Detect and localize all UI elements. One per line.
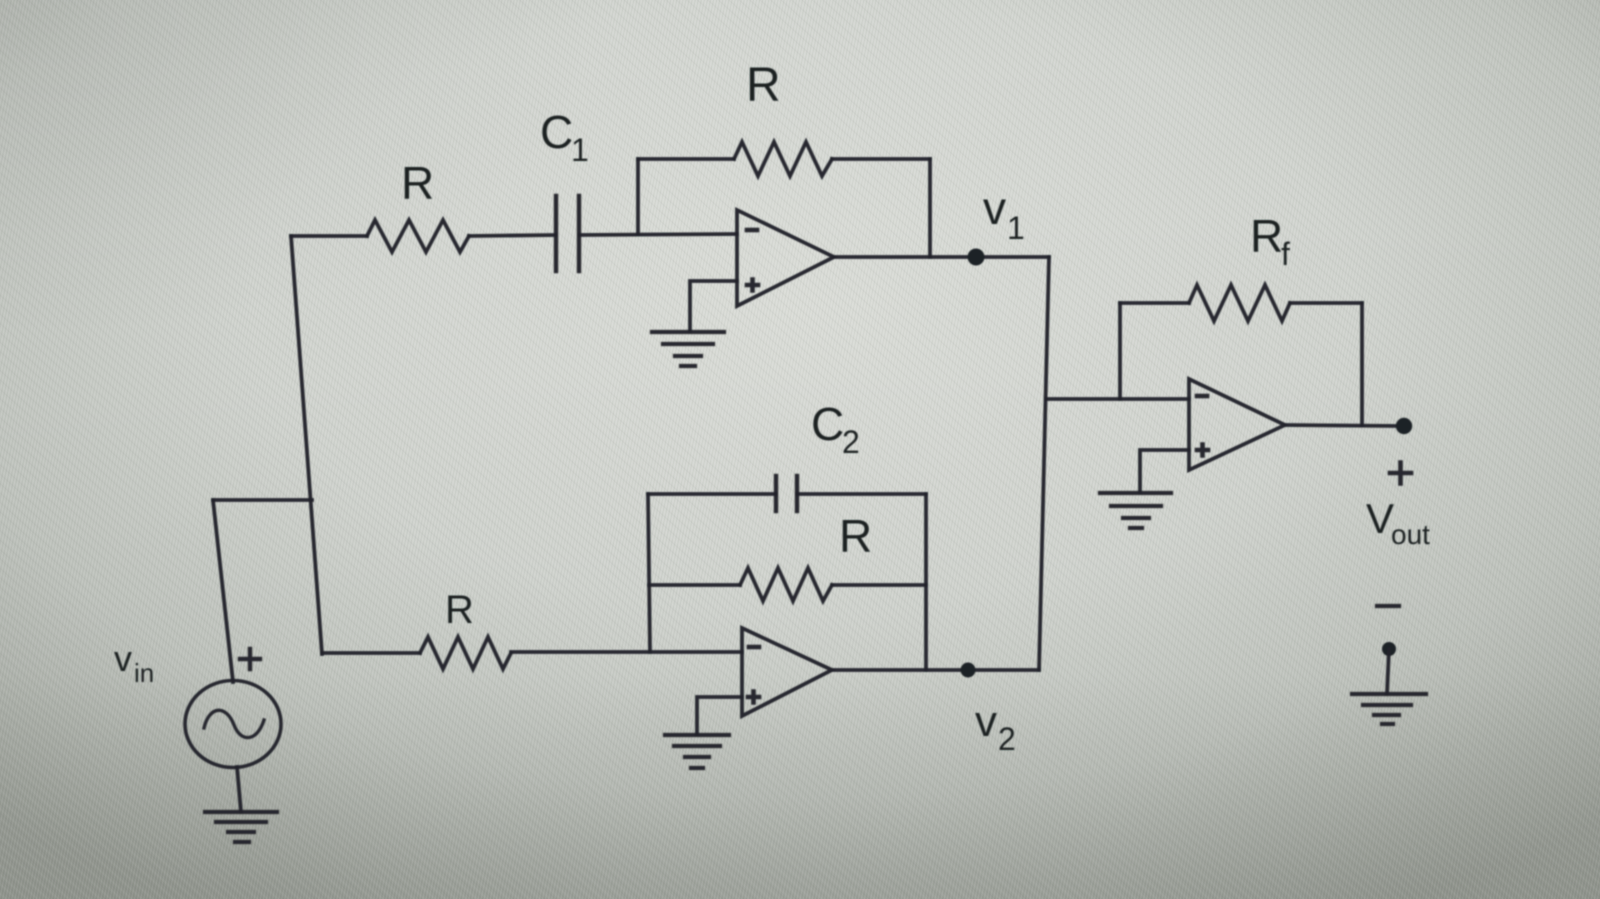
wire: Rf top left <box>1120 301 1189 305</box>
U1 plus pin <box>747 280 758 291</box>
svg-text:R: R <box>746 59 781 112</box>
svg-text:C: C <box>811 398 844 450</box>
wire: U1 feedback left vertical <box>636 159 640 234</box>
svg-text:in: in <box>134 658 154 688</box>
svg-text:v: v <box>114 638 132 679</box>
wire: U1 non-inverting input <box>690 281 737 331</box>
wire: long vertical V1 to V2 <box>1039 257 1049 670</box>
node Vout dot <box>1396 418 1412 434</box>
svg-text:V: V <box>1366 495 1394 542</box>
resistor Rf <box>1189 285 1290 321</box>
wire: U1 feedback top right <box>832 157 930 161</box>
wire: R to C1 <box>469 235 556 236</box>
wire: to output ground <box>1387 649 1389 694</box>
U3 plus pin <box>1197 445 1208 456</box>
wire: U3 output <box>1285 425 1403 426</box>
op-amp U2 <box>742 628 832 716</box>
wire: bottom branch left <box>322 651 420 655</box>
wire: U2 non-inverting input <box>697 697 742 734</box>
wire: source vertical <box>213 500 233 682</box>
node V1 junction dot <box>968 249 985 266</box>
wire: U1 feedback top left <box>638 157 734 161</box>
svg-text:v: v <box>975 697 997 746</box>
svg-text:R: R <box>839 510 872 562</box>
capacitor C1 right plate <box>577 196 581 271</box>
svg-text:out: out <box>1391 519 1430 550</box>
U1 minus pin <box>747 228 757 233</box>
node V2 junction dot <box>961 663 976 678</box>
wire: U1 output to V1 <box>834 255 1049 259</box>
capacitor C2 right plate <box>795 476 799 511</box>
wire: R feedback right <box>832 583 926 587</box>
wire: top branch left segment <box>291 234 367 238</box>
capacitor C2 left plate <box>774 476 778 511</box>
wire: U3 non-inverting input <box>1140 450 1189 492</box>
svg-text:1: 1 <box>571 132 589 168</box>
U2 minus pin <box>749 645 759 650</box>
capacitor C1 left plate <box>554 196 558 271</box>
svg-text:v: v <box>983 182 1006 234</box>
wire: R to U2 inverting input <box>511 650 742 654</box>
wire: U2 feedback loop right vertical <box>924 494 928 670</box>
svg-text:R: R <box>1250 210 1283 262</box>
resistor R (U2 feedback) <box>740 568 832 601</box>
U3 minus pin <box>1197 394 1207 399</box>
minus sign at output <box>1377 604 1399 608</box>
resistor R bottom-left <box>420 637 511 669</box>
svg-text:R: R <box>401 157 434 209</box>
wire: U3 feedback left vertical <box>1118 303 1122 399</box>
svg-text:R: R <box>445 588 474 632</box>
svg-text:f: f <box>1281 236 1290 272</box>
wire: U3 feedback right vertical <box>1360 303 1364 425</box>
node dot above output ground <box>1382 642 1396 656</box>
ground (source) <box>205 812 277 842</box>
svg-text:2: 2 <box>998 721 1016 757</box>
wire: U2 output to V2 <box>832 668 1039 672</box>
plus sign at output <box>1390 463 1411 484</box>
svg-text:2: 2 <box>842 424 860 460</box>
resistor R top-left <box>367 220 469 252</box>
ground (U1 non-inverting) <box>652 332 724 366</box>
ground (U3 non-inverting) <box>1100 493 1171 528</box>
op-amp U1 <box>737 210 834 306</box>
svg-text:C: C <box>540 106 573 158</box>
plus sign at source <box>240 649 260 669</box>
ground (output) <box>1352 694 1426 724</box>
wire: source branch horizontal <box>213 498 312 502</box>
wire: branch to U3 inverting input <box>1046 397 1189 401</box>
wire: main left vertical from top branch to bottom branch <box>291 236 322 654</box>
resistor R (U1 feedback) <box>734 142 832 176</box>
wire: C2 right <box>797 492 926 496</box>
ground (U2 non-inverting) <box>665 735 729 768</box>
source sine wave <box>204 710 264 737</box>
svg-text:1: 1 <box>1007 210 1025 246</box>
wire: Rf top right <box>1290 301 1362 305</box>
wire: C2 left <box>648 492 776 496</box>
wire: U2 feedback loop left vertical <box>648 494 650 652</box>
source Vin (AC) <box>185 681 281 768</box>
wire: R feedback left <box>649 583 740 587</box>
U2 plus pin <box>748 692 759 703</box>
op-amp U3 <box>1189 379 1285 470</box>
wire: U1 feedback right vertical <box>928 159 932 257</box>
wire: source to ground <box>237 767 241 812</box>
wire: C1 to op-amp U1 inverting input <box>579 234 737 235</box>
